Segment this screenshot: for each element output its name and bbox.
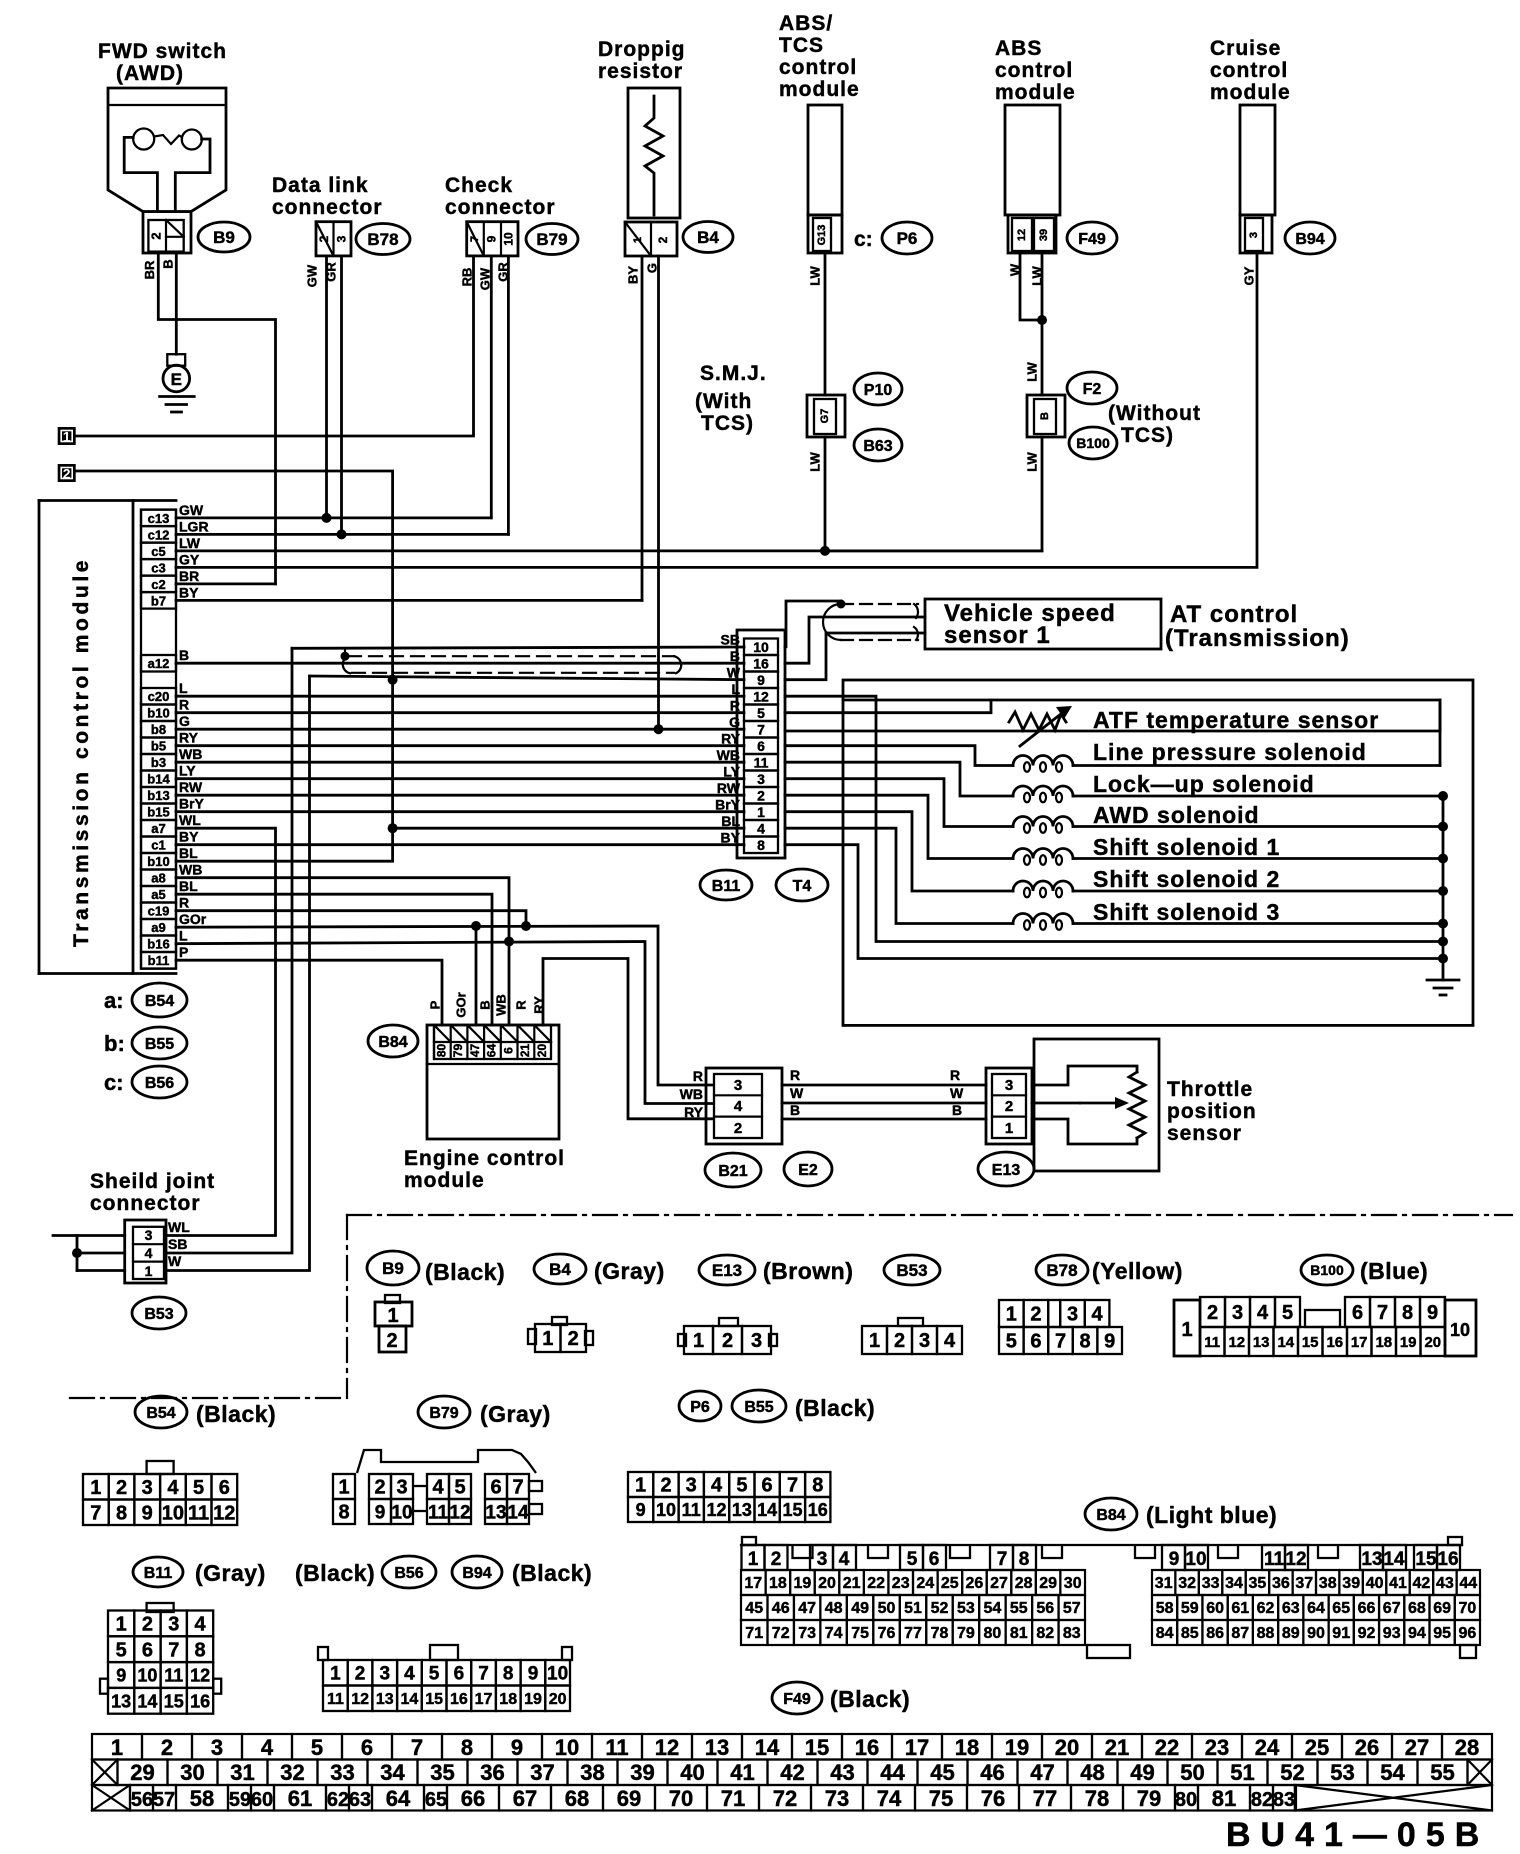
wire row b8 G — [176, 728, 744, 731]
svg-text:2: 2 — [355, 1664, 366, 1685]
svg-text:RW: RW — [179, 779, 203, 795]
svg-text:37: 37 — [1295, 1575, 1313, 1592]
svg-text:67: 67 — [1383, 1600, 1401, 1617]
svg-text:48: 48 — [1080, 1760, 1104, 1785]
svg-text:2: 2 — [894, 1330, 905, 1352]
svg-text:(Black): (Black) — [512, 1560, 592, 1586]
svg-text:73: 73 — [798, 1625, 816, 1642]
svg-text:61: 61 — [1231, 1600, 1249, 1617]
svg-text:64: 64 — [485, 1044, 499, 1058]
svg-text:46: 46 — [980, 1760, 1004, 1785]
junction shift3 x ground bus — [1438, 919, 1448, 929]
Transmission control module outline — [39, 499, 176, 502]
svg-text:1: 1 — [635, 1475, 646, 1497]
svg-text:G7: G7 — [819, 409, 831, 424]
svg-text:control: control — [1210, 59, 1288, 82]
svg-text:W: W — [950, 1085, 964, 1101]
legend B4 connector glyph — [552, 1317, 567, 1325]
svg-text:68: 68 — [1408, 1600, 1426, 1617]
solenoid right bus vertical — [1439, 700, 1442, 766]
svg-text:12: 12 — [213, 1503, 235, 1525]
legend F49 connector glyph grid — [92, 1734, 142, 1760]
wire data link GR to TCM c12 LgR row — [340, 256, 343, 535]
svg-text:(Yellow): (Yellow) — [1092, 1258, 1183, 1284]
svg-text:10: 10 — [1450, 1320, 1470, 1340]
svg-text:B: B — [477, 1000, 492, 1009]
svg-text:(Without: (Without — [1108, 402, 1201, 425]
svg-text:66: 66 — [1358, 1600, 1376, 1617]
svg-text:49: 49 — [1130, 1760, 1154, 1785]
svg-text:Shift solenoid 1: Shift solenoid 1 — [1093, 834, 1280, 860]
svg-text:Droppig: Droppig — [598, 38, 685, 61]
junction return1 x ground bus — [1438, 937, 1448, 947]
svg-text:b16: b16 — [147, 937, 169, 952]
svg-text:4: 4 — [195, 1614, 207, 1636]
svg-text:31: 31 — [1155, 1575, 1173, 1592]
ATF temperature sensor label box — [785, 700, 1440, 731]
svg-text:14: 14 — [401, 1691, 419, 1708]
svg-text:7: 7 — [168, 1639, 179, 1661]
svg-text:76: 76 — [981, 1786, 1005, 1811]
svg-text:B: B — [160, 259, 175, 268]
dropping resistor R1 body — [628, 88, 680, 218]
svg-text:BrY: BrY — [179, 796, 205, 812]
svg-text:16: 16 — [753, 656, 769, 672]
svg-text:AT control: AT control — [1170, 601, 1298, 628]
svg-text:82: 82 — [1036, 1625, 1054, 1642]
svg-text:WB: WB — [717, 747, 740, 763]
junction data GW x GW row — [322, 513, 332, 523]
svg-text:15: 15 — [1415, 1549, 1437, 1570]
svg-text:15: 15 — [425, 1691, 443, 1708]
svg-text:30: 30 — [180, 1760, 204, 1785]
svg-text:84: 84 — [1156, 1625, 1174, 1642]
svg-text:7: 7 — [478, 1664, 489, 1685]
connector ref ellipse B56 (c) — [132, 1066, 187, 1098]
svg-text:P6: P6 — [690, 1399, 710, 1416]
svg-text:W: W — [790, 1085, 804, 1101]
svg-text:LY: LY — [179, 763, 196, 779]
Engine control module box — [427, 1025, 559, 1139]
svg-text:45: 45 — [930, 1760, 954, 1785]
svg-text:B84: B84 — [378, 1034, 407, 1051]
Shift solenoid 3 L6 — [785, 828, 1013, 923]
svg-text:7: 7 — [1055, 1331, 1066, 1353]
svg-text:4: 4 — [404, 1664, 415, 1685]
connector ref ellipse B55 (b) — [132, 1027, 187, 1059]
svg-text:(Gray): (Gray) — [480, 1401, 551, 1427]
svg-text:B53: B53 — [144, 1306, 173, 1323]
wire ABS/TCS LW to SMJ — [824, 253, 827, 395]
svg-text:c19: c19 — [148, 904, 170, 919]
shield joint connector B53 box — [125, 1220, 166, 1283]
svg-text:9: 9 — [142, 1503, 153, 1525]
svg-text:76: 76 — [878, 1625, 896, 1642]
legend E13 ellipse — [699, 1255, 755, 1285]
svg-text:80: 80 — [984, 1625, 1002, 1642]
svg-text:33: 33 — [330, 1760, 354, 1785]
svg-text:3: 3 — [686, 1475, 697, 1497]
svg-text:40: 40 — [1366, 1575, 1384, 1592]
svg-text:SB: SB — [721, 632, 740, 648]
svg-text:54: 54 — [1380, 1760, 1405, 1785]
svg-text:Transmission control module: Transmission control module — [70, 557, 93, 947]
svg-text:3: 3 — [919, 1330, 930, 1352]
svg-text:26: 26 — [966, 1575, 984, 1592]
svg-text:B21: B21 — [718, 1163, 747, 1180]
svg-text:44: 44 — [880, 1760, 905, 1785]
data link connector B78 box — [316, 222, 351, 256]
svg-text:15: 15 — [1302, 1334, 1319, 1351]
svg-text:B54: B54 — [146, 1405, 175, 1422]
svg-text:position: position — [1167, 1100, 1257, 1123]
svg-text:B56: B56 — [145, 1075, 174, 1092]
off-page connector 2 — [58, 464, 76, 482]
svg-text:29: 29 — [130, 1760, 154, 1785]
wire cruise GY to TCM c3 GY row — [176, 253, 1257, 567]
svg-text:2: 2 — [142, 1614, 153, 1636]
svg-text:11: 11 — [605, 1735, 628, 1760]
E13 connector box — [986, 1068, 1032, 1144]
svg-text:12: 12 — [1285, 1549, 1306, 1570]
svg-text:9: 9 — [375, 1502, 386, 1523]
legend B94 ellipse 2 — [452, 1556, 502, 1588]
svg-text:Check: Check — [445, 174, 513, 197]
junction return2 x ground bus — [1438, 954, 1448, 964]
svg-text:1: 1 — [632, 237, 644, 243]
wire W branch to shield joint — [166, 676, 310, 1271]
svg-text:(Brown): (Brown) — [763, 1258, 853, 1284]
svg-text:B63: B63 — [863, 438, 892, 455]
svg-text:96: 96 — [1459, 1625, 1477, 1642]
junction SMJ LW x LW row — [820, 546, 830, 556]
legend B84 connector glyph 96pin — [741, 1544, 1462, 1546]
svg-text:3: 3 — [751, 1330, 762, 1352]
svg-text:19: 19 — [524, 1691, 542, 1708]
svg-text:6: 6 — [929, 1549, 940, 1570]
legend B9 connector glyph — [385, 1295, 400, 1303]
wire FWD B to ground E — [175, 253, 178, 354]
svg-text:RY: RY — [684, 1104, 704, 1120]
wire droppig G to TCM b8 G row — [657, 256, 660, 729]
svg-text:BY: BY — [625, 266, 640, 284]
svg-text:G13: G13 — [816, 225, 828, 246]
svg-text:Shift solenoid 3: Shift solenoid 3 — [1093, 899, 1280, 925]
svg-text:2: 2 — [148, 232, 163, 239]
svg-text:16: 16 — [190, 1691, 210, 1711]
wire data link GW to TCM c13 GW row — [325, 256, 328, 518]
svg-text:(Black): (Black) — [196, 1401, 276, 1427]
svg-text:15: 15 — [805, 1735, 829, 1760]
svg-text:B94: B94 — [1295, 231, 1324, 248]
Throttle position sensor box — [1034, 1039, 1159, 1171]
svg-text:B55: B55 — [145, 1036, 174, 1053]
svg-text:10: 10 — [502, 232, 516, 246]
svg-text:81: 81 — [1212, 1786, 1236, 1811]
ECM connector B84 cells — [434, 1025, 551, 1059]
wire row c5 LW — [176, 550, 1042, 553]
svg-text:1: 1 — [693, 1330, 704, 1352]
svg-text:R: R — [179, 697, 189, 713]
legend B53 connector glyph — [898, 1318, 923, 1326]
svg-text:12: 12 — [1228, 1334, 1245, 1351]
svg-text:65: 65 — [1332, 1600, 1350, 1617]
svg-text:8: 8 — [1080, 1331, 1091, 1353]
svg-text:4: 4 — [711, 1475, 723, 1497]
svg-text:14: 14 — [137, 1691, 157, 1711]
svg-text:b8: b8 — [151, 722, 166, 737]
svg-text:3: 3 — [757, 771, 765, 787]
svg-text:3: 3 — [1248, 232, 1260, 238]
svg-text:c:: c: — [104, 1070, 124, 1095]
TCM pin cells and ids — [141, 510, 176, 526]
svg-text:28: 28 — [1015, 1575, 1033, 1592]
wire row b5 RY — [176, 744, 744, 747]
shield dashes around a12 B wire — [348, 655, 674, 657]
svg-text:14: 14 — [1383, 1549, 1405, 1570]
svg-text:10: 10 — [555, 1735, 579, 1760]
legend B56 connector glyph 4x4 — [147, 1603, 174, 1612]
svg-text:18: 18 — [955, 1735, 979, 1760]
svg-text:LW: LW — [807, 452, 822, 472]
connector ref ellipse B53 — [132, 1297, 186, 1329]
wire SB shield drain to B11 pin10 — [292, 647, 744, 648]
svg-text:7: 7 — [787, 1475, 798, 1497]
svg-text:18: 18 — [769, 1575, 787, 1592]
svg-text:37: 37 — [530, 1760, 554, 1785]
svg-text:c:: c: — [854, 228, 873, 251]
svg-text:18: 18 — [499, 1691, 517, 1708]
svg-text:P: P — [179, 944, 188, 960]
junction droppig G x G row — [654, 724, 664, 734]
svg-text:3: 3 — [817, 1549, 828, 1570]
svg-text:16: 16 — [1437, 1549, 1458, 1570]
svg-text:92: 92 — [1358, 1625, 1376, 1642]
svg-text:1: 1 — [330, 1664, 341, 1685]
junction W x LW wire — [1037, 315, 1047, 325]
svg-text:13: 13 — [1253, 1334, 1270, 1351]
svg-text:35: 35 — [430, 1760, 454, 1785]
svg-text:88: 88 — [1257, 1625, 1275, 1642]
svg-text:67: 67 — [513, 1786, 537, 1811]
svg-text:12: 12 — [753, 689, 769, 705]
svg-text:(Blue): (Blue) — [1360, 1258, 1428, 1284]
svg-text:L: L — [179, 928, 188, 944]
svg-text:38: 38 — [1319, 1575, 1337, 1592]
svg-text:F2: F2 — [1083, 381, 1102, 398]
svg-text:8: 8 — [461, 1735, 473, 1760]
svg-text:L: L — [731, 681, 740, 697]
svg-text:E13: E13 — [992, 1162, 1021, 1179]
svg-text:B78: B78 — [1046, 1261, 1077, 1280]
svg-text:2: 2 — [1207, 1302, 1218, 1324]
wire B11 pin16 B to speed sensor — [785, 617, 925, 663]
svg-text:SB: SB — [168, 1236, 187, 1252]
svg-text:50: 50 — [1180, 1760, 1204, 1785]
svg-text:91: 91 — [1332, 1625, 1350, 1642]
svg-text:42: 42 — [780, 1760, 804, 1785]
svg-text:a:: a: — [104, 988, 124, 1013]
FWD switch S1 body — [108, 88, 226, 212]
connector ref ellipse B100 — [1069, 427, 1117, 459]
svg-text:70: 70 — [1459, 1600, 1477, 1617]
svg-text:2: 2 — [161, 1735, 173, 1760]
svg-text:26: 26 — [1355, 1735, 1379, 1760]
svg-text:9: 9 — [1427, 1302, 1438, 1324]
svg-text:10: 10 — [1185, 1549, 1206, 1570]
svg-text:8: 8 — [116, 1503, 127, 1525]
svg-text:51: 51 — [1230, 1760, 1254, 1785]
junction data GR x LgR row — [337, 529, 347, 539]
svg-text:6: 6 — [219, 1477, 230, 1499]
TCM pin column box — [141, 510, 176, 969]
svg-text:a8: a8 — [151, 871, 165, 886]
svg-text:80: 80 — [435, 1044, 449, 1058]
svg-text:module: module — [995, 81, 1076, 104]
wire row a5 BL to ECM — [176, 894, 492, 1025]
svg-text:5: 5 — [429, 1664, 440, 1685]
svg-text:2: 2 — [734, 1120, 742, 1137]
svg-text:78: 78 — [931, 1625, 949, 1642]
svg-text:10: 10 — [656, 1500, 676, 1520]
svg-text:17: 17 — [475, 1691, 493, 1708]
svg-text:63: 63 — [1282, 1600, 1300, 1617]
svg-text:b10: b10 — [147, 854, 169, 869]
svg-text:58: 58 — [1156, 1600, 1174, 1617]
connector ref ellipse B21 — [705, 1153, 761, 1187]
svg-text:2: 2 — [757, 788, 765, 804]
svg-text:6: 6 — [757, 738, 765, 754]
svg-text:b14: b14 — [147, 772, 170, 787]
svg-text:31: 31 — [230, 1760, 254, 1785]
svg-text:RW: RW — [717, 780, 741, 796]
svg-text:E2: E2 — [798, 1162, 818, 1179]
svg-text:9: 9 — [528, 1664, 539, 1685]
svg-text:20: 20 — [818, 1575, 836, 1592]
solenoid ground bus — [1442, 796, 1445, 980]
svg-text:89: 89 — [1282, 1625, 1300, 1642]
svg-text:(AWD): (AWD) — [116, 62, 184, 85]
svg-text:R: R — [179, 895, 189, 911]
svg-text:86: 86 — [1206, 1625, 1224, 1642]
svg-text:47: 47 — [798, 1600, 816, 1617]
svg-text:9: 9 — [485, 235, 499, 242]
svg-text:40: 40 — [680, 1760, 704, 1785]
svg-text:RY: RY — [721, 731, 741, 747]
svg-text:2: 2 — [386, 1330, 397, 1352]
svg-text:7: 7 — [757, 722, 765, 738]
svg-text:(Black): (Black) — [295, 1560, 375, 1586]
Vehicle speed sensor 1 box — [925, 599, 1161, 649]
svg-text:2: 2 — [317, 235, 331, 242]
svg-text:8: 8 — [1019, 1549, 1030, 1570]
junction SB x sensor shield — [837, 600, 846, 609]
svg-text:(Light blue): (Light blue) — [1146, 1502, 1277, 1528]
svg-text:E: E — [171, 370, 182, 389]
svg-text:R: R — [693, 1068, 703, 1084]
svg-text:77: 77 — [1033, 1786, 1057, 1811]
svg-text:10: 10 — [137, 1666, 157, 1686]
svg-text:3: 3 — [1005, 1077, 1013, 1094]
svg-text:1: 1 — [111, 1735, 123, 1760]
svg-text:WB: WB — [493, 994, 508, 1016]
svg-text:TCS): TCS) — [701, 412, 754, 435]
svg-text:control: control — [995, 59, 1073, 82]
svg-text:7: 7 — [997, 1549, 1008, 1570]
svg-text:TCS): TCS) — [1121, 424, 1174, 447]
svg-text:58: 58 — [190, 1786, 214, 1811]
svg-text:c5: c5 — [151, 544, 165, 559]
svg-text:51: 51 — [904, 1600, 922, 1617]
svg-text:3: 3 — [1232, 1302, 1243, 1324]
svg-text:15: 15 — [782, 1500, 802, 1520]
svg-text:4: 4 — [432, 1477, 444, 1499]
Cruise connector 3 — [1240, 215, 1272, 253]
connector ref ellipse B63 — [854, 429, 902, 461]
svg-text:B56: B56 — [394, 1565, 423, 1582]
svg-text:WL: WL — [179, 812, 201, 828]
FWD switch contacts — [133, 129, 154, 150]
connector ref ellipse F49 — [1067, 222, 1117, 254]
svg-text:a5: a5 — [151, 887, 165, 902]
legend B11 label — [133, 1557, 183, 1587]
wire row b14 LY — [176, 777, 744, 780]
Lock-up solenoid L2 — [785, 762, 1013, 796]
connector ref ellipse B9 — [198, 222, 250, 252]
wire row a12 B shielded to B11 pin16 — [176, 662, 744, 665]
legend P6/B55 connector glyph — [628, 1472, 653, 1497]
svg-text:F49: F49 — [1078, 231, 1106, 248]
svg-text:62: 62 — [1257, 1600, 1275, 1617]
svg-text:9: 9 — [511, 1735, 523, 1760]
svg-text:module: module — [404, 1169, 485, 1192]
svg-text:50: 50 — [878, 1600, 896, 1617]
wire B11 pin9 W to speed sensor — [785, 633, 925, 680]
svg-text:Shift solenoid 2: Shift solenoid 2 — [1093, 866, 1280, 892]
svg-text:c13: c13 — [148, 511, 170, 526]
svg-text:34: 34 — [380, 1760, 405, 1785]
svg-text:B: B — [790, 1102, 800, 1118]
svg-text:WB: WB — [179, 862, 202, 878]
svg-text:53: 53 — [1330, 1760, 1354, 1785]
shield joint left bus — [76, 1236, 79, 1271]
svg-text:(Black): (Black) — [795, 1395, 875, 1421]
svg-text:c20: c20 — [148, 689, 170, 704]
legend F49 ellipse — [772, 1682, 822, 1714]
svg-text:2: 2 — [63, 466, 71, 482]
svg-text:71: 71 — [721, 1786, 745, 1811]
junction R x GOr row — [521, 921, 531, 931]
wire GOr branch to ECM — [475, 926, 478, 1025]
svg-text:Data link: Data link — [272, 174, 369, 197]
wire check GW to TCM c13 GW row — [490, 256, 493, 518]
wire ABS pin12 W jog — [1020, 253, 1042, 320]
svg-text:2: 2 — [660, 1475, 671, 1497]
wire FWD BR: B9 pin to TCM c2 BR row — [158, 253, 275, 584]
ABS connector 12/39 — [1008, 215, 1056, 253]
svg-text:4: 4 — [167, 1477, 179, 1499]
throttle pot wiring — [1032, 1066, 1137, 1085]
svg-text:44: 44 — [1459, 1575, 1477, 1592]
svg-text:11: 11 — [1204, 1334, 1220, 1351]
check connector B79 box — [467, 222, 518, 256]
svg-text:7: 7 — [411, 1735, 423, 1760]
svg-text:b11: b11 — [148, 953, 170, 968]
svg-text:GOr: GOr — [179, 911, 207, 927]
svg-text:2: 2 — [568, 1328, 579, 1350]
svg-text:L: L — [179, 680, 188, 696]
svg-text:2: 2 — [1005, 1098, 1013, 1115]
